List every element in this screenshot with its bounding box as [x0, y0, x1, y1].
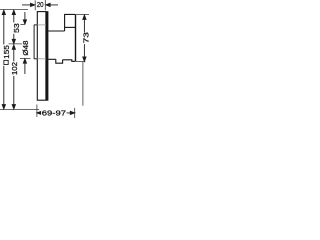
dimension 53 line [12, 10, 15, 44]
handle front face [33, 25, 35, 59]
dimension d48 label [21, 41, 30, 57]
body top edge [48, 30, 64, 32]
dimension 20 ext lines [35, 0, 45, 10]
handle top edge [34, 24, 37, 26]
square bottom groove [65, 26, 76, 28]
dimension 69-97 ext left [36, 105, 38, 118]
svg-text:102: 102 [10, 62, 19, 75]
dimension 69-97 line [37, 111, 75, 114]
dimension 53 label [12, 22, 21, 33]
body right edge [75, 14, 77, 61]
svg-text:53: 53 [12, 23, 21, 33]
svg-text:155: 155 [2, 45, 11, 59]
dimension 155 label [2, 44, 11, 65]
mid extension line (53/102 junction) [9, 43, 28, 45]
bottom extension line [0, 108, 39, 110]
dimension 102 label [10, 61, 19, 76]
handle bottom edge [34, 58, 37, 60]
ext stub for diameter bottom [20, 58, 31, 60]
vertical reference line below body [82, 62, 84, 106]
dimension 73 ext bottom [76, 61, 85, 63]
svg-text:Ø48: Ø48 [21, 41, 30, 56]
raised square (stop housing) [65, 14, 76, 31]
svg-text:73: 73 [81, 32, 90, 43]
svg-text:69-97: 69-97 [42, 108, 66, 117]
dimension 155 line [2, 10, 5, 109]
body bottom left [48, 58, 56, 60]
dimension 69-97 ext right [74, 108, 76, 118]
wall bar (thick back edge) [46, 11, 48, 101]
body bottom right [63, 60, 76, 62]
dimension d48 arrows (outside) [23, 12, 26, 74]
top extension line (plate top ref) [0, 9, 28, 11]
ext stub for diameter top [16, 24, 24, 26]
dimension 20 line [22, 3, 58, 6]
svg-text:20: 20 [37, 0, 44, 9]
dimension 69-97 label [41, 108, 66, 117]
dimension 73 line [83, 15, 86, 61]
dimension 20 label [36, 0, 44, 9]
dimension 73 ext top [76, 13, 89, 15]
dimension 102 line [12, 45, 15, 109]
dimension 73 label [81, 32, 90, 44]
connection stub box [56, 59, 63, 63]
plate (escutcheon side view) [37, 12, 46, 101]
